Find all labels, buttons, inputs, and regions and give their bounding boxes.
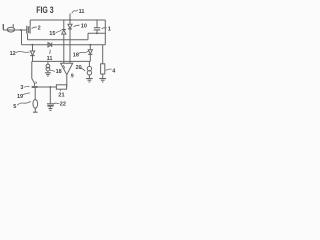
svg-text:11: 11	[47, 56, 53, 62]
wire R2 right riser	[87, 33, 89, 40]
svg-text:11: 11	[79, 9, 85, 15]
diode 15 bottom lead / amp input	[63, 34, 65, 63]
wire right corner x105.3 from R1 down to R3	[104, 20, 106, 45]
ground lead below 22	[49, 107, 51, 109]
base rail wire y87	[38, 86, 57, 88]
label 19 leader	[23, 93, 30, 95]
svg-text:9: 9	[71, 74, 74, 80]
diode 15 bar	[62, 29, 66, 31]
left column wire from R4 corner to transistor	[31, 61, 33, 78]
wire drop from node to R3	[21, 30, 23, 45]
ground bars below 20	[86, 78, 93, 80]
amplifier output wire	[66, 75, 68, 87]
junction dot (97,33.3)	[96, 32, 98, 34]
wire rail R3	[22, 44, 106, 46]
microphone lead tick	[12, 24, 14, 28]
capacitor 1 top lead	[96, 20, 98, 27]
diode 16 triangle	[88, 50, 92, 54]
label 21 leader	[59, 90, 61, 92]
transistor 3 base bar	[32, 86, 38, 88]
terminal T1	[2, 24, 4, 30]
ground lead below 4	[102, 74, 104, 78]
svg-text:19: 19	[17, 94, 23, 100]
svg-text:3: 3	[20, 85, 23, 91]
series diode 17 triangle on R3	[48, 43, 51, 47]
transistor 3 emitter wire down	[34, 88, 36, 100]
zener diode 12 triangle	[30, 51, 34, 55]
crystal 2 right plate	[29, 26, 31, 34]
current source 20 stub	[88, 61, 90, 66]
svg-text:18: 18	[56, 69, 62, 75]
label 22 leader	[53, 103, 60, 104]
wire rail R4	[32, 60, 91, 62]
svg-text:2: 2	[38, 26, 41, 32]
microphone M1 (oval)	[7, 27, 14, 32]
diode 15 triangle	[62, 30, 66, 34]
svg-text:15: 15	[49, 31, 55, 37]
wire rail R2	[28, 39, 89, 41]
current source 20 circle a	[87, 66, 91, 70]
current source 18 circle a	[46, 64, 50, 68]
transistor 3 collector tick	[35, 82, 36, 84]
label 20 leader	[79, 68, 85, 71]
current source 18 circle b	[46, 67, 50, 71]
label 12 leader	[16, 52, 30, 53]
lamp 5 bottom terminal dash	[33, 111, 38, 113]
svg-text:1: 1	[108, 26, 111, 32]
zener diode 12 top lead	[32, 45, 34, 51]
svg-text:22: 22	[60, 102, 66, 108]
label 16 leader	[78, 51, 88, 53]
wire input from terminal	[3, 29, 26, 31]
svg-text:12: 12	[10, 51, 16, 57]
diode 10 bottom lead / amp input	[69, 29, 71, 63]
crystal 2 middle element	[27, 26, 29, 33]
label 11 leader	[72, 10, 78, 14]
diode 10 bar	[68, 28, 72, 30]
resistor 4 lead from R3	[102, 45, 104, 64]
ground lead below 20	[88, 75, 90, 78]
wire R1 left corner down to crystal	[29, 20, 31, 26]
current source 18 stub	[47, 61, 49, 64]
junction dot (21.5,30)	[20, 29, 22, 31]
label 17 leader	[48, 50, 51, 54]
diode 16 bottom lead	[89, 54, 91, 61]
amplifier 20 triangle	[61, 63, 73, 74]
capacitor 22 branch	[49, 87, 51, 104]
svg-text:FIG 3: FIG 3	[36, 5, 54, 15]
label 3 leader	[24, 85, 29, 88]
lamp 5 bottom lead	[34, 108, 36, 112]
label 1 leader	[102, 28, 107, 29]
lamp 5 (oval)	[33, 100, 38, 109]
junction dot (50.3,87)	[49, 86, 51, 88]
zener diode 12 bar	[30, 55, 34, 57]
label 4 leader	[106, 69, 112, 70]
junction dot (32.5,44.8)	[32, 44, 34, 46]
amplifier inner mark	[63, 65, 64, 68]
ground bars below 22	[48, 108, 52, 110]
capacitor 22 plate b	[47, 105, 53, 107]
diode 16 top lead	[89, 45, 91, 50]
crystal 2 left plate	[26, 26, 28, 34]
resistor 4 box	[101, 64, 105, 74]
diode 15 top lead	[63, 20, 65, 29]
label 15 leader	[56, 31, 62, 33]
wire top rail R1	[30, 19, 105, 21]
wire crystal bottom drop	[27, 34, 29, 40]
zener diode 12 bottom lead	[32, 56, 34, 62]
junction dot (70,20)	[69, 19, 71, 21]
svg-text:4: 4	[112, 68, 116, 74]
ground lead below 18	[47, 71, 49, 73]
label 5 leader	[17, 102, 31, 106]
transistor 3 collector bend	[32, 79, 35, 87]
svg-text:5: 5	[13, 104, 16, 110]
svg-text:10: 10	[81, 24, 87, 30]
ground bars below 18	[45, 72, 51, 74]
wire node 11 stub	[69, 14, 71, 21]
resistor 21 box	[56, 85, 66, 89]
series diode 17 bar	[51, 43, 53, 47]
svg-text:20: 20	[76, 65, 82, 71]
svg-text:21: 21	[58, 92, 64, 98]
capacitor 1 plates	[94, 27, 100, 29]
capacitor 22 plate a	[47, 103, 54, 105]
label 2 leader	[32, 27, 37, 29]
ground bars below 4	[99, 78, 106, 80]
label 18 leader	[50, 70, 55, 71]
diode 10 triangle	[68, 24, 72, 28]
diode 16 junction dot (90.3,44.8)	[89, 44, 91, 46]
diode 10 top lead	[69, 20, 71, 24]
label 10 leader	[73, 25, 79, 27]
capacitor 1 bottom lead	[96, 30, 98, 33]
diode 16 bar	[88, 53, 92, 55]
wire link y33.3 from riser to x105.3	[88, 32, 105, 34]
current source 20 circle b	[87, 71, 91, 75]
